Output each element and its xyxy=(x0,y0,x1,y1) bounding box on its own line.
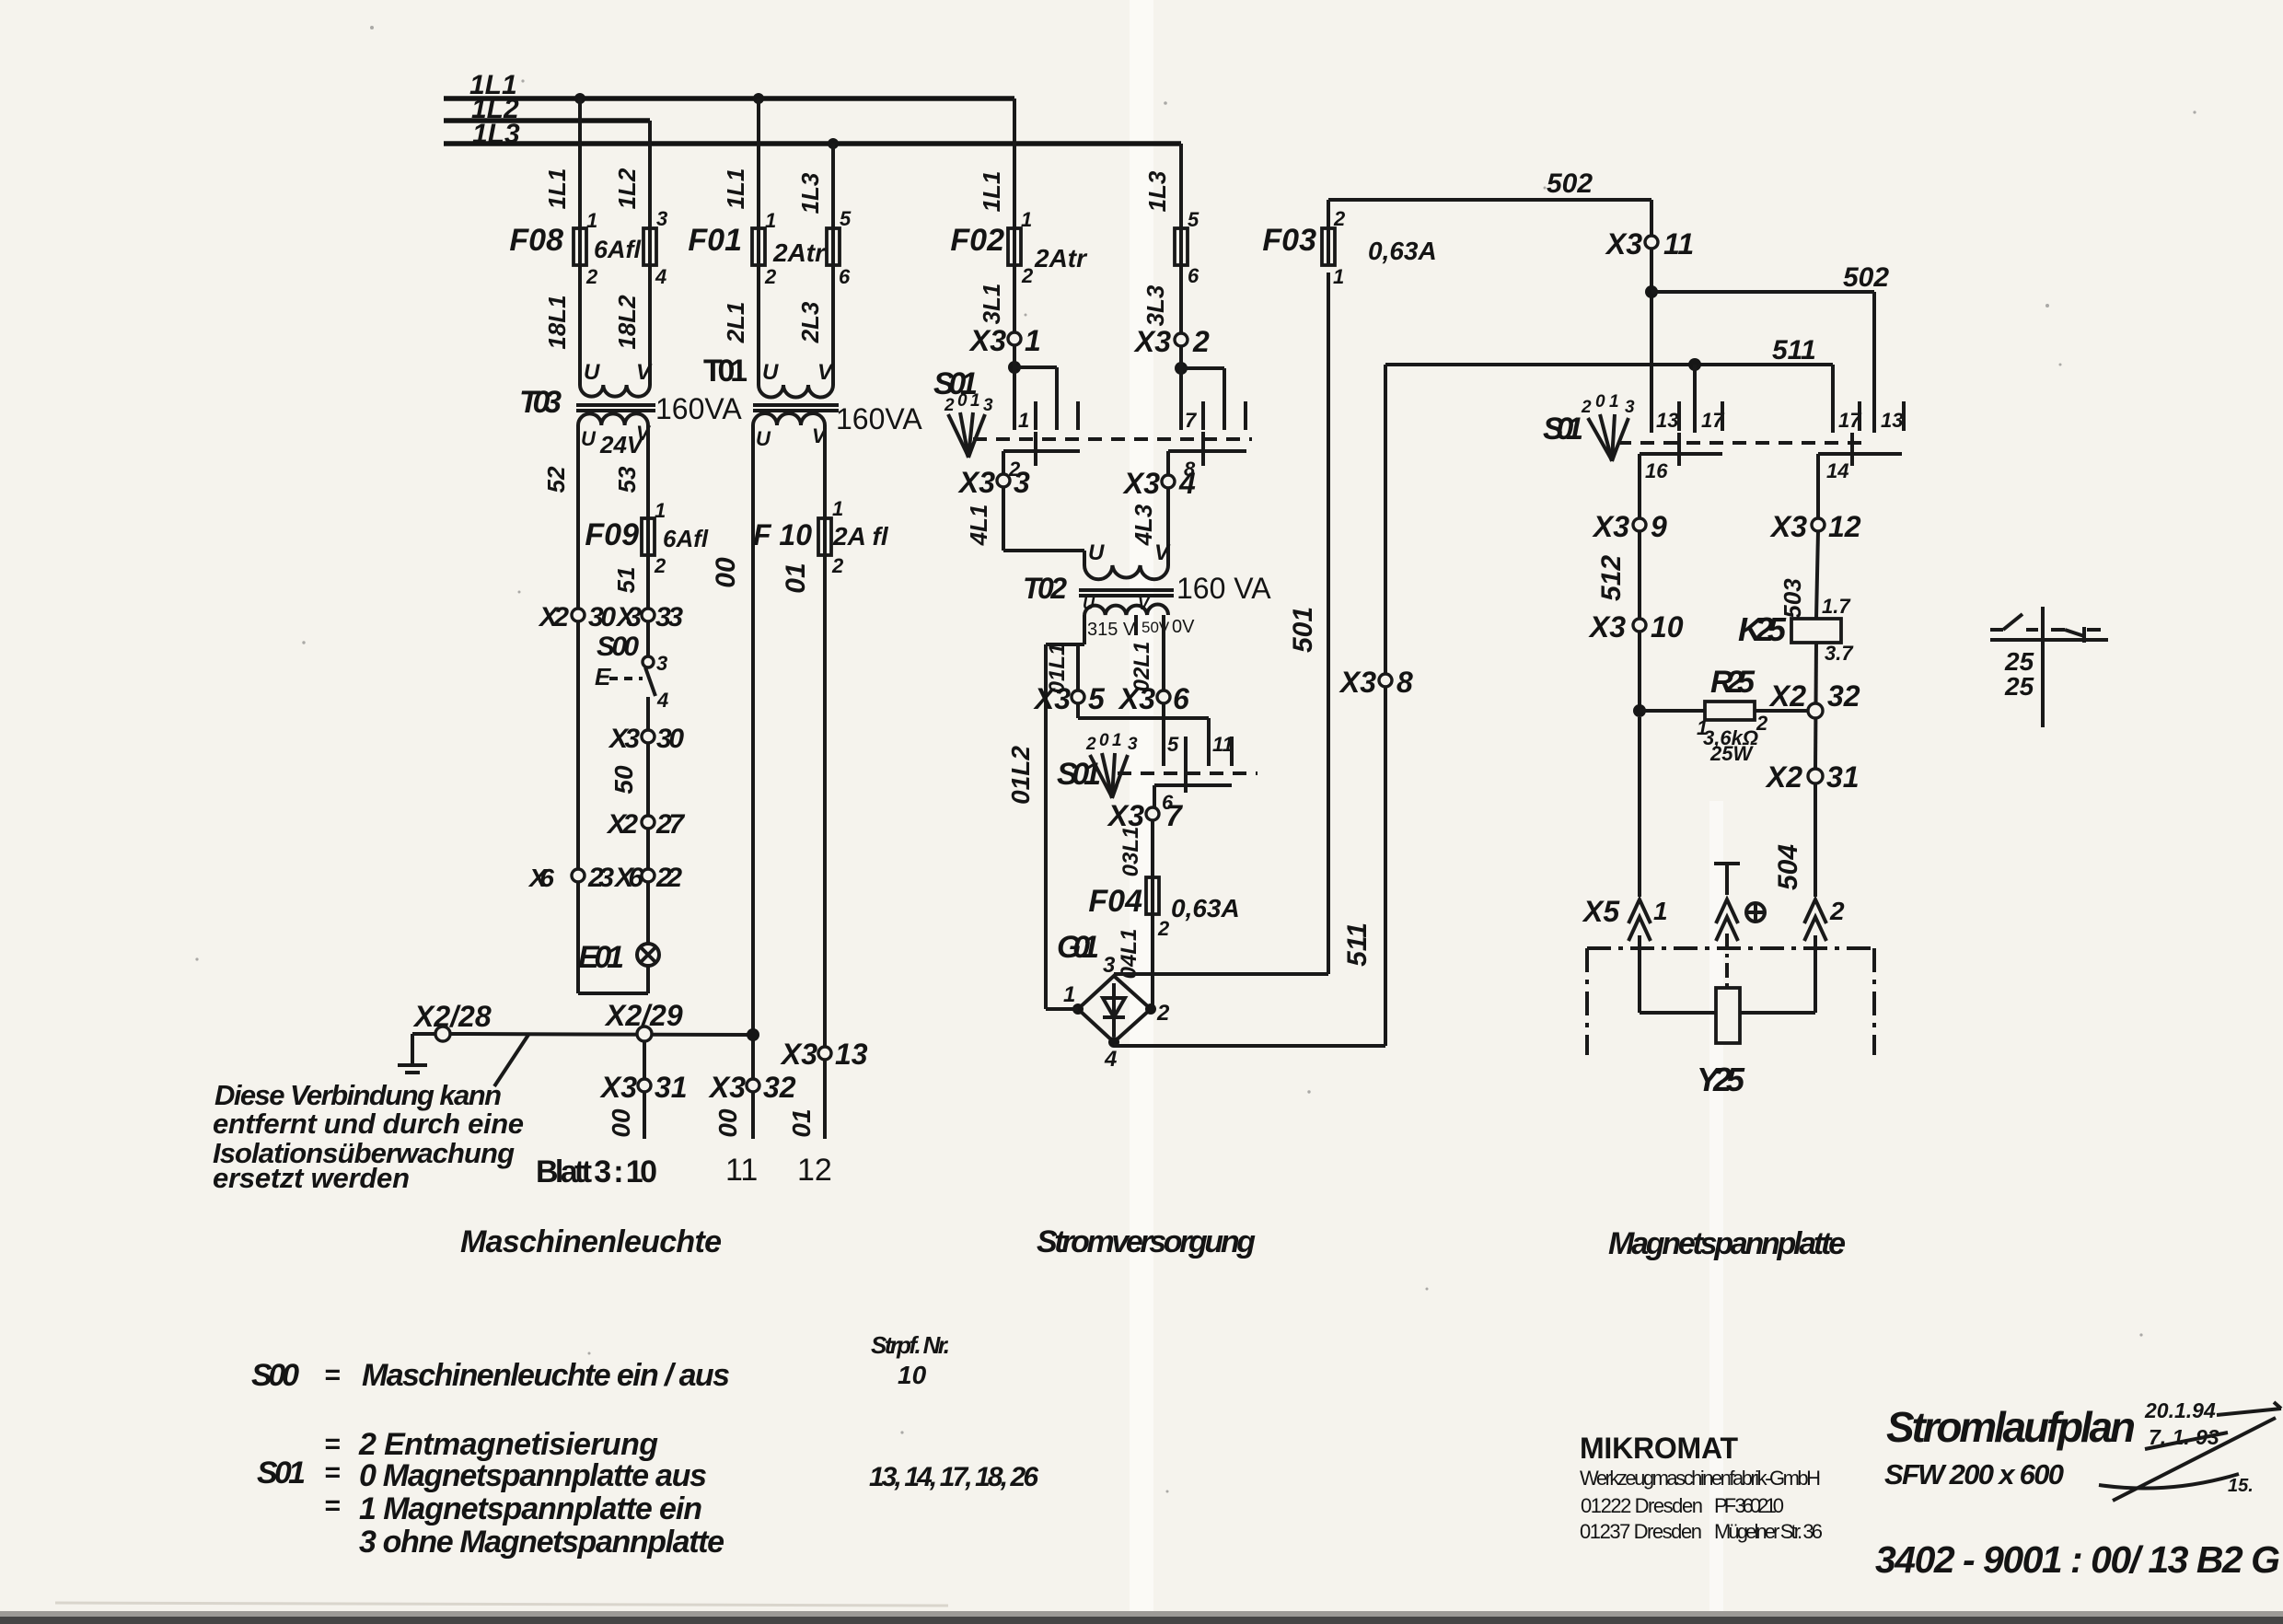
svg-text:1L1: 1L1 xyxy=(978,171,1005,213)
transformer T01 xyxy=(703,354,922,450)
svg-text:X3: X3 xyxy=(599,1071,637,1104)
legend S00 xyxy=(251,1358,730,1393)
svg-text:13: 13 xyxy=(1881,409,1903,432)
svg-text:2: 2 xyxy=(944,396,955,415)
svg-text:12: 12 xyxy=(1828,510,1861,543)
wire 01L2 xyxy=(1006,644,1046,1009)
legend S01 xyxy=(257,1427,724,1560)
wire X5:2 to Y25 xyxy=(1740,935,1815,1013)
svg-text:=: = xyxy=(324,1429,341,1459)
wire X2:27 to X6:22 xyxy=(646,829,650,869)
wire X3:33 to S00 xyxy=(646,621,650,656)
svg-text:3L3: 3L3 xyxy=(1141,284,1169,326)
svg-text:E: E xyxy=(595,663,611,690)
svg-text:MIKROMAT: MIKROMAT xyxy=(1580,1432,1738,1465)
svg-text:1: 1 xyxy=(1021,208,1032,231)
svg-text:ersetzt werden: ersetzt werden xyxy=(213,1162,410,1194)
svg-text:12: 12 xyxy=(797,1153,832,1188)
svg-text:X3: X3 xyxy=(608,724,640,754)
terminal X3:3 xyxy=(957,466,1030,499)
wire 2L3 xyxy=(796,265,833,385)
svg-text:5: 5 xyxy=(1088,682,1106,715)
svg-text:3: 3 xyxy=(1625,398,1635,417)
svg-text:1: 1 xyxy=(765,209,776,232)
svg-text:3402 - 9001 : 00/ 13 B2 G: 3402 - 9001 : 00/ 13 B2 G xyxy=(1875,1538,2280,1581)
svg-text:3: 3 xyxy=(656,652,667,675)
svg-text:K25: K25 xyxy=(1738,610,1787,648)
svg-text:2L3: 2L3 xyxy=(796,301,824,343)
terminal X2:30 xyxy=(538,602,616,632)
wire 512 xyxy=(1596,531,1640,711)
svg-text:1L3: 1L3 xyxy=(1143,170,1171,212)
wire 511 horizontal xyxy=(1385,335,1833,433)
wire 51 xyxy=(612,555,648,609)
contact cross-reference K25 xyxy=(1990,607,2108,727)
svg-text:V: V xyxy=(1138,595,1151,613)
fuse F09 xyxy=(585,499,708,577)
svg-text:2A fl: 2A fl xyxy=(832,522,889,551)
wire 501 xyxy=(1114,273,1328,974)
svg-text:51: 51 xyxy=(612,567,640,594)
svg-text:X3: X3 xyxy=(615,602,642,632)
fuse F03 xyxy=(1262,200,1436,288)
wire 02L1 xyxy=(1130,615,1164,766)
note text isolation monitoring xyxy=(213,1079,524,1194)
resistor R25 xyxy=(1640,665,1809,765)
wire 502 upper xyxy=(1328,168,1651,433)
wire 53 xyxy=(613,425,648,518)
svg-text:4L3: 4L3 xyxy=(1130,504,1157,546)
svg-text:00: 00 xyxy=(713,1108,742,1138)
svg-text:U: U xyxy=(762,360,779,385)
svg-text:160 VA: 160 VA xyxy=(1176,572,1271,605)
terminal X3:6 xyxy=(1118,682,1189,715)
svg-text:X3: X3 xyxy=(780,1038,817,1071)
svg-text:Werkzeugmaschinenfabrik-GmbH: Werkzeugmaschinenfabrik-GmbH xyxy=(1580,1467,1821,1490)
svg-text:2: 2 xyxy=(654,554,666,577)
wire 1L3 drop to fuse F01 pole 2 xyxy=(796,144,833,228)
node link/00 junction xyxy=(747,1028,759,1041)
wire X5:1 to Y25 xyxy=(1640,935,1716,1013)
sheet reference Blatt 3 xyxy=(536,1153,832,1189)
machine boundary (dash-dot) xyxy=(1587,948,1874,1055)
terminal X6:22 xyxy=(613,863,682,893)
wire 18L2 xyxy=(613,265,650,385)
svg-text:X6: X6 xyxy=(613,863,643,893)
svg-text:504: 504 xyxy=(1773,844,1803,890)
svg-text:2: 2 xyxy=(1333,207,1346,230)
svg-text:01: 01 xyxy=(787,1108,816,1137)
svg-text:F01: F01 xyxy=(688,223,742,258)
lamp E01 xyxy=(578,882,659,993)
switch S01 (Magnetspannplatte selector) xyxy=(1543,392,1904,518)
svg-text:03L1: 03L1 xyxy=(1118,827,1143,877)
wire X3:5 to contact 11 xyxy=(1078,718,1209,766)
svg-text:F03: F03 xyxy=(1262,223,1316,258)
wire 18L1 xyxy=(543,265,580,385)
svg-text:31: 31 xyxy=(655,1071,688,1104)
fuse F01 pole 2 (pins 5/6) xyxy=(827,207,852,288)
svg-text:01237 Dresden: 01237 Dresden xyxy=(1580,1520,1702,1543)
svg-text:502: 502 xyxy=(1547,168,1593,199)
terminal X3:30 xyxy=(608,724,684,754)
wire 01L1 xyxy=(1045,644,1078,718)
terminal X3:9 xyxy=(1592,510,1667,543)
switch S01 upper (Stromversorgung primary selector) xyxy=(933,366,1252,481)
svg-text:501: 501 xyxy=(1288,607,1318,653)
svg-text:X3: X3 xyxy=(1588,610,1626,644)
svg-text:=: = xyxy=(324,1457,341,1488)
svg-text:8: 8 xyxy=(1396,666,1413,699)
svg-text:10: 10 xyxy=(898,1361,927,1389)
terminal X3:1 xyxy=(968,324,1041,357)
svg-text:5: 5 xyxy=(1188,208,1199,231)
fuse F04 xyxy=(1088,877,1239,940)
title Stromlaufplan xyxy=(1884,1403,2136,1491)
svg-text:7: 7 xyxy=(1185,409,1198,432)
terminal X2/28 with ground xyxy=(398,1000,492,1073)
svg-text:X3: X3 xyxy=(1605,227,1642,261)
svg-text:13, 14, 17, 18, 26: 13, 14, 17, 18, 26 xyxy=(869,1462,1038,1492)
svg-text:G01: G01 xyxy=(1057,930,1099,965)
svg-text:1: 1 xyxy=(832,497,843,520)
terminal X3:7 xyxy=(1107,799,1184,832)
svg-text:5: 5 xyxy=(1167,733,1179,756)
svg-text:S00: S00 xyxy=(251,1358,299,1393)
svg-text:160VA: 160VA xyxy=(836,402,922,435)
svg-text:30: 30 xyxy=(656,724,684,754)
svg-text:X2/28: X2/28 xyxy=(412,1000,492,1033)
connector X5 PE pin xyxy=(1714,864,1765,941)
svg-text:01L2: 01L2 xyxy=(1006,746,1035,805)
svg-text:4: 4 xyxy=(655,265,666,288)
svg-text:X3: X3 xyxy=(957,466,995,499)
fuse F02 xyxy=(950,208,1088,287)
wire 1L1 drop to fuse F08 xyxy=(543,99,580,228)
wire X3:2 to switch contact 7 xyxy=(1181,346,1224,430)
node 511 junction xyxy=(1688,358,1701,371)
svg-text:2: 2 xyxy=(1156,1001,1170,1026)
svg-text:Maschinenleuchte: Maschinenleuchte xyxy=(460,1224,722,1259)
svg-text:15.: 15. xyxy=(2228,1476,2254,1496)
node R25 junction xyxy=(1633,704,1646,717)
svg-text:T02: T02 xyxy=(1023,572,1067,605)
svg-text:25: 25 xyxy=(2004,672,2034,701)
svg-text:7: 7 xyxy=(1165,799,1184,832)
svg-text:1 Magnetspannplatte ein: 1 Magnetspannplatte ein xyxy=(359,1491,702,1526)
svg-text:31: 31 xyxy=(1826,760,1860,794)
wire PE dash-dot to Y25 xyxy=(1725,934,1729,988)
svg-text:13: 13 xyxy=(835,1038,868,1071)
svg-text:X5: X5 xyxy=(1582,895,1620,928)
wire 1L1 bus xyxy=(444,70,1014,100)
wire 3L3 xyxy=(1141,265,1181,333)
svg-text:1L2: 1L2 xyxy=(613,168,641,209)
svg-text:T03: T03 xyxy=(519,385,562,420)
svg-text:16: 16 xyxy=(1645,459,1668,482)
svg-text:U: U xyxy=(584,360,600,385)
svg-text:F09: F09 xyxy=(585,517,639,552)
svg-text:V: V xyxy=(1154,540,1171,565)
svg-text:S01: S01 xyxy=(1543,412,1583,447)
wire 50 xyxy=(609,743,648,816)
wire 4L1 xyxy=(965,487,1084,565)
svg-text:1: 1 xyxy=(1653,897,1668,925)
handwritten date 7.1.93 xyxy=(2145,1425,2228,1449)
svg-text:=: = xyxy=(324,1360,341,1390)
svg-text:1: 1 xyxy=(1063,982,1075,1007)
leader line to note xyxy=(494,1035,528,1086)
svg-text:X3: X3 xyxy=(1133,325,1171,358)
svg-text:18L1: 18L1 xyxy=(543,295,571,349)
wire 511 vertical xyxy=(1114,365,1385,1046)
wire 00 (T01 secondary left) xyxy=(711,425,753,1139)
switch S01 lower (Stromversorgung secondary selector) xyxy=(1057,731,1257,814)
svg-text:Maschinenleuchte ein / aus: Maschinenleuchte ein / aus xyxy=(362,1358,730,1393)
signature strokes xyxy=(2099,1418,2276,1501)
svg-text:10: 10 xyxy=(1651,610,1684,644)
svg-text:entfernt und durch eine: entfernt und durch eine xyxy=(213,1108,524,1140)
svg-text:F 10: F 10 xyxy=(753,518,812,551)
svg-text:SFW 200 x 600: SFW 200 x 600 xyxy=(1884,1458,2064,1491)
wire K25 to X2:32 xyxy=(1815,643,1816,770)
svg-text:2: 2 xyxy=(1157,917,1170,940)
svg-text:X3: X3 xyxy=(1122,467,1160,500)
svg-text:04L1: 04L1 xyxy=(1117,929,1141,980)
svg-text:3: 3 xyxy=(1014,466,1030,499)
svg-text:6Afl: 6Afl xyxy=(663,525,709,552)
svg-text:1L3: 1L3 xyxy=(472,119,520,149)
svg-text:2: 2 xyxy=(1581,398,1592,417)
svg-text:F02: F02 xyxy=(950,223,1004,258)
svg-text:2: 2 xyxy=(1021,264,1034,287)
svg-text:0V: 0V xyxy=(1172,617,1195,637)
svg-text:3L1: 3L1 xyxy=(978,284,1005,325)
fuse F02 pole 2 (pins 5/6) xyxy=(1175,208,1199,287)
svg-text:4: 4 xyxy=(1104,1047,1117,1072)
svg-text:6: 6 xyxy=(1188,264,1199,287)
wire 1L2 bus xyxy=(444,94,650,124)
switch S00 xyxy=(595,632,668,730)
terminal X3:33 xyxy=(615,602,683,632)
svg-text:502: 502 xyxy=(1843,262,1889,293)
svg-text:0: 0 xyxy=(1099,731,1109,750)
svg-text:2Atr: 2Atr xyxy=(1034,244,1088,273)
wire 1L2 drop to fuse F08 pole 2 xyxy=(613,121,650,228)
svg-text:1: 1 xyxy=(1112,731,1122,750)
svg-text:3 ohne Magnetspannplatte: 3 ohne Magnetspannplatte xyxy=(359,1525,724,1560)
svg-text:0,63A: 0,63A xyxy=(1171,894,1240,922)
svg-text:X2: X2 xyxy=(538,602,569,632)
svg-text:6Afl: 6Afl xyxy=(594,236,642,263)
svg-text:32: 32 xyxy=(1827,679,1860,713)
wire 01 xyxy=(781,555,825,1139)
svg-text:0 Magnetspannplatte aus: 0 Magnetspannplatte aus xyxy=(359,1458,707,1493)
wire T02 secondary taps xyxy=(1046,615,1136,644)
svg-text:Stromlaufplan: Stromlaufplan xyxy=(1886,1403,2136,1451)
wire 502 branch xyxy=(1651,262,1889,433)
svg-text:50: 50 xyxy=(609,765,638,795)
svg-text:1L1: 1L1 xyxy=(543,168,571,210)
svg-text:X2: X2 xyxy=(1768,679,1806,713)
svg-text:0: 0 xyxy=(1595,392,1605,412)
svg-text:X2: X2 xyxy=(606,809,638,840)
svg-text:25W: 25W xyxy=(1709,742,1754,765)
svg-text:315 V: 315 V xyxy=(1087,620,1136,640)
svg-text:1: 1 xyxy=(655,499,666,522)
svg-text:X3: X3 xyxy=(1339,666,1376,699)
svg-text:X6: X6 xyxy=(527,864,554,892)
svg-text:Stromversorgung: Stromversorgung xyxy=(1037,1224,1256,1259)
wire X5:1 drop xyxy=(1638,717,1641,897)
svg-text:20.1.94: 20.1.94 xyxy=(2144,1398,2216,1422)
svg-text:53: 53 xyxy=(613,466,641,493)
svg-text:3: 3 xyxy=(1128,735,1138,754)
svg-text:1L1: 1L1 xyxy=(722,168,749,210)
svg-text:U: U xyxy=(1083,595,1095,613)
svg-text:2: 2 xyxy=(585,265,598,288)
svg-text:X3: X3 xyxy=(1769,510,1807,543)
svg-text:=: = xyxy=(324,1491,341,1521)
wire 3L1 xyxy=(978,265,1014,332)
svg-text:Y25: Y25 xyxy=(1697,1061,1745,1098)
wire 504 xyxy=(1773,783,1815,897)
wire 2L1 xyxy=(722,265,759,385)
svg-text:3: 3 xyxy=(1103,953,1116,978)
svg-text:0,63A: 0,63A xyxy=(1368,237,1437,265)
svg-text:00: 00 xyxy=(607,1108,635,1138)
wire 1L1 drop to fuse F02 xyxy=(978,99,1014,228)
svg-text:50V: 50V xyxy=(1141,619,1170,636)
svg-text:5: 5 xyxy=(840,207,852,230)
svg-text:X3: X3 xyxy=(1592,510,1629,543)
transformer T02 xyxy=(1023,540,1271,640)
terminal X6:23 xyxy=(527,863,614,893)
svg-text:T01: T01 xyxy=(703,354,747,389)
svg-text:9: 9 xyxy=(1651,510,1667,543)
svg-text:2: 2 xyxy=(1829,897,1845,925)
svg-text:01: 01 xyxy=(781,563,811,593)
terminal X3:8 xyxy=(1339,666,1413,699)
svg-text:V: V xyxy=(636,360,653,385)
svg-text:00: 00 xyxy=(711,557,741,588)
terminal X3:2 xyxy=(1133,325,1210,358)
svg-text:27: 27 xyxy=(655,809,685,840)
svg-text:32: 32 xyxy=(763,1071,796,1104)
svg-text:2: 2 xyxy=(764,265,777,288)
svg-text:11: 11 xyxy=(725,1153,758,1188)
fuse F01 xyxy=(688,209,827,288)
svg-text:11: 11 xyxy=(1663,227,1694,261)
node 1L3/F01 junction xyxy=(828,138,839,149)
title block MIKROMAT xyxy=(1580,1432,1823,1543)
svg-text:14: 14 xyxy=(1826,459,1848,482)
svg-text:1.7: 1.7 xyxy=(1822,595,1851,618)
svg-text:1: 1 xyxy=(1018,409,1029,432)
svg-text:2L1: 2L1 xyxy=(722,302,749,344)
svg-text:S01: S01 xyxy=(257,1456,306,1491)
terminal X3:32 xyxy=(708,1071,796,1104)
connector X5 pin 1 xyxy=(1582,895,1668,941)
svg-text:511: 511 xyxy=(1342,922,1373,967)
svg-text:511: 511 xyxy=(1772,335,1816,365)
svg-text:1: 1 xyxy=(970,391,980,411)
wire 503 xyxy=(1779,531,1818,619)
svg-text:0: 0 xyxy=(957,391,968,411)
svg-text:160VA: 160VA xyxy=(655,392,742,425)
svg-text:1: 1 xyxy=(586,209,597,232)
svg-text:R25: R25 xyxy=(1710,665,1756,700)
wire 4L3 xyxy=(1130,488,1168,565)
svg-text:2: 2 xyxy=(1192,325,1210,358)
fuse F08 xyxy=(509,209,641,288)
svg-text:Blatt 3 : 10: Blatt 3 : 10 xyxy=(536,1154,657,1189)
svg-text:U: U xyxy=(756,427,771,450)
svg-text:3: 3 xyxy=(656,207,667,230)
terminal X3:12 xyxy=(1769,510,1861,543)
terminal X3:5 xyxy=(1033,682,1106,715)
node below X3:2 xyxy=(1175,362,1188,375)
svg-text:3: 3 xyxy=(983,396,993,415)
wire X3:1 to switch contact 1 xyxy=(1014,345,1057,430)
terminal X3:4 xyxy=(1122,467,1196,500)
svg-text:512: 512 xyxy=(1596,555,1627,601)
node 1L1/F01 junction xyxy=(753,93,764,104)
wire 04L1 xyxy=(1117,914,1153,1009)
svg-text:F08: F08 xyxy=(509,223,563,258)
svg-text:4L1: 4L1 xyxy=(965,505,992,547)
svg-text:2 Entmagnetisierung: 2 Entmagnetisierung xyxy=(358,1427,658,1462)
wire 1L3 drop to fuse F02 pole 2 xyxy=(1143,144,1181,228)
svg-text:52: 52 xyxy=(542,466,570,493)
wire 511 to contact 17 xyxy=(1693,365,1697,433)
terminal X3:10 xyxy=(1588,610,1684,644)
handwritten date 20.1.94 xyxy=(2144,1398,2281,1422)
svg-text:1: 1 xyxy=(1609,392,1619,412)
terminal X2:31 xyxy=(1765,760,1860,794)
svg-text:01222 Dresden: 01222 Dresden xyxy=(1581,1494,1703,1517)
svg-text:2: 2 xyxy=(1085,735,1096,754)
svg-text:4: 4 xyxy=(656,689,668,712)
svg-text:V: V xyxy=(817,360,834,385)
svg-text:22: 22 xyxy=(655,863,682,893)
terminal X3:31 xyxy=(599,1071,688,1104)
svg-text:X3: X3 xyxy=(1118,682,1155,715)
svg-text:X2: X2 xyxy=(1765,760,1802,794)
svg-text:U: U xyxy=(581,427,597,450)
fuse F08 pole 2 (pins 3/4) xyxy=(643,207,667,288)
svg-text:1: 1 xyxy=(1333,265,1344,288)
wire 00 drop below X2/29 xyxy=(607,1041,644,1139)
svg-text:6: 6 xyxy=(1173,682,1189,715)
terminal X2:27 xyxy=(606,809,685,840)
relay coil K25 xyxy=(1738,595,1854,665)
svg-text:23: 23 xyxy=(587,863,614,893)
svg-text:1: 1 xyxy=(1025,324,1041,357)
svg-text:PF 360210: PF 360210 xyxy=(1714,1494,1784,1517)
fuse F10 xyxy=(753,497,889,577)
node below X3:1 xyxy=(1008,361,1021,374)
terminal X2/29 xyxy=(604,999,683,1041)
connector X5 pin 2 xyxy=(1804,897,1845,941)
legend Strpf. Nr. xyxy=(871,1331,950,1389)
svg-text:6: 6 xyxy=(839,265,851,288)
wire 01L2 to rectifier pin 1 xyxy=(1046,1007,1078,1011)
wire lamp return loop xyxy=(578,992,648,995)
svg-text:Diese Verbindung kann: Diese Verbindung kann xyxy=(214,1079,502,1111)
svg-text:X3: X3 xyxy=(708,1071,746,1104)
svg-text:30: 30 xyxy=(588,602,616,632)
